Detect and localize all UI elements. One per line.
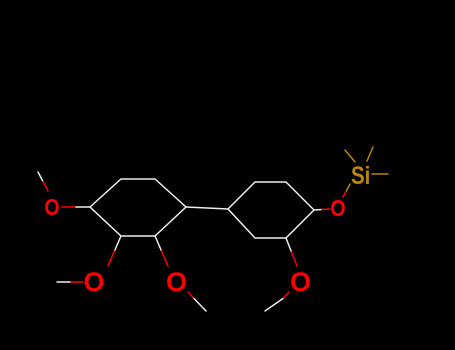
wire O5 methyl bond xyxy=(283,292,289,299)
svg-text:O: O xyxy=(44,195,59,221)
wire ring to O2 bond xyxy=(115,236,122,251)
wire O4 to Si bond xyxy=(343,191,347,198)
wire biphenyl C1-C1' bond xyxy=(186,207,228,209)
svg-text:O: O xyxy=(290,267,311,297)
wire O2 methyl bond xyxy=(57,281,71,283)
wire ring to O3 bond xyxy=(155,236,162,251)
svg-text:O: O xyxy=(330,196,345,222)
wire O3 methyl bond xyxy=(188,292,194,299)
wire O1 to ring bond xyxy=(62,206,76,208)
left benzene ring xyxy=(90,179,186,236)
svg-text:Si: Si xyxy=(351,161,370,189)
wire ring to O5 bond xyxy=(286,238,292,252)
wire ring to O4 bond xyxy=(314,209,322,212)
wire O1 methyl bond xyxy=(38,172,43,182)
svg-text:O: O xyxy=(166,267,187,297)
wire Si methyl right xyxy=(372,173,388,175)
right benzene ring xyxy=(228,182,314,238)
wire Si methyl up-right xyxy=(367,147,373,161)
svg-text:O: O xyxy=(83,267,104,297)
wire Si methyl up-left xyxy=(345,150,355,162)
